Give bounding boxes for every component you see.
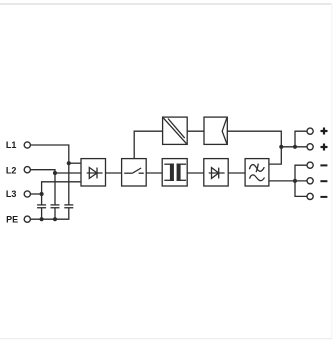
svg-text:PE: PE: [6, 214, 18, 224]
svg-text:L1: L1: [6, 140, 17, 150]
svg-text:L2: L2: [6, 165, 17, 175]
svg-text:L3: L3: [6, 189, 17, 199]
